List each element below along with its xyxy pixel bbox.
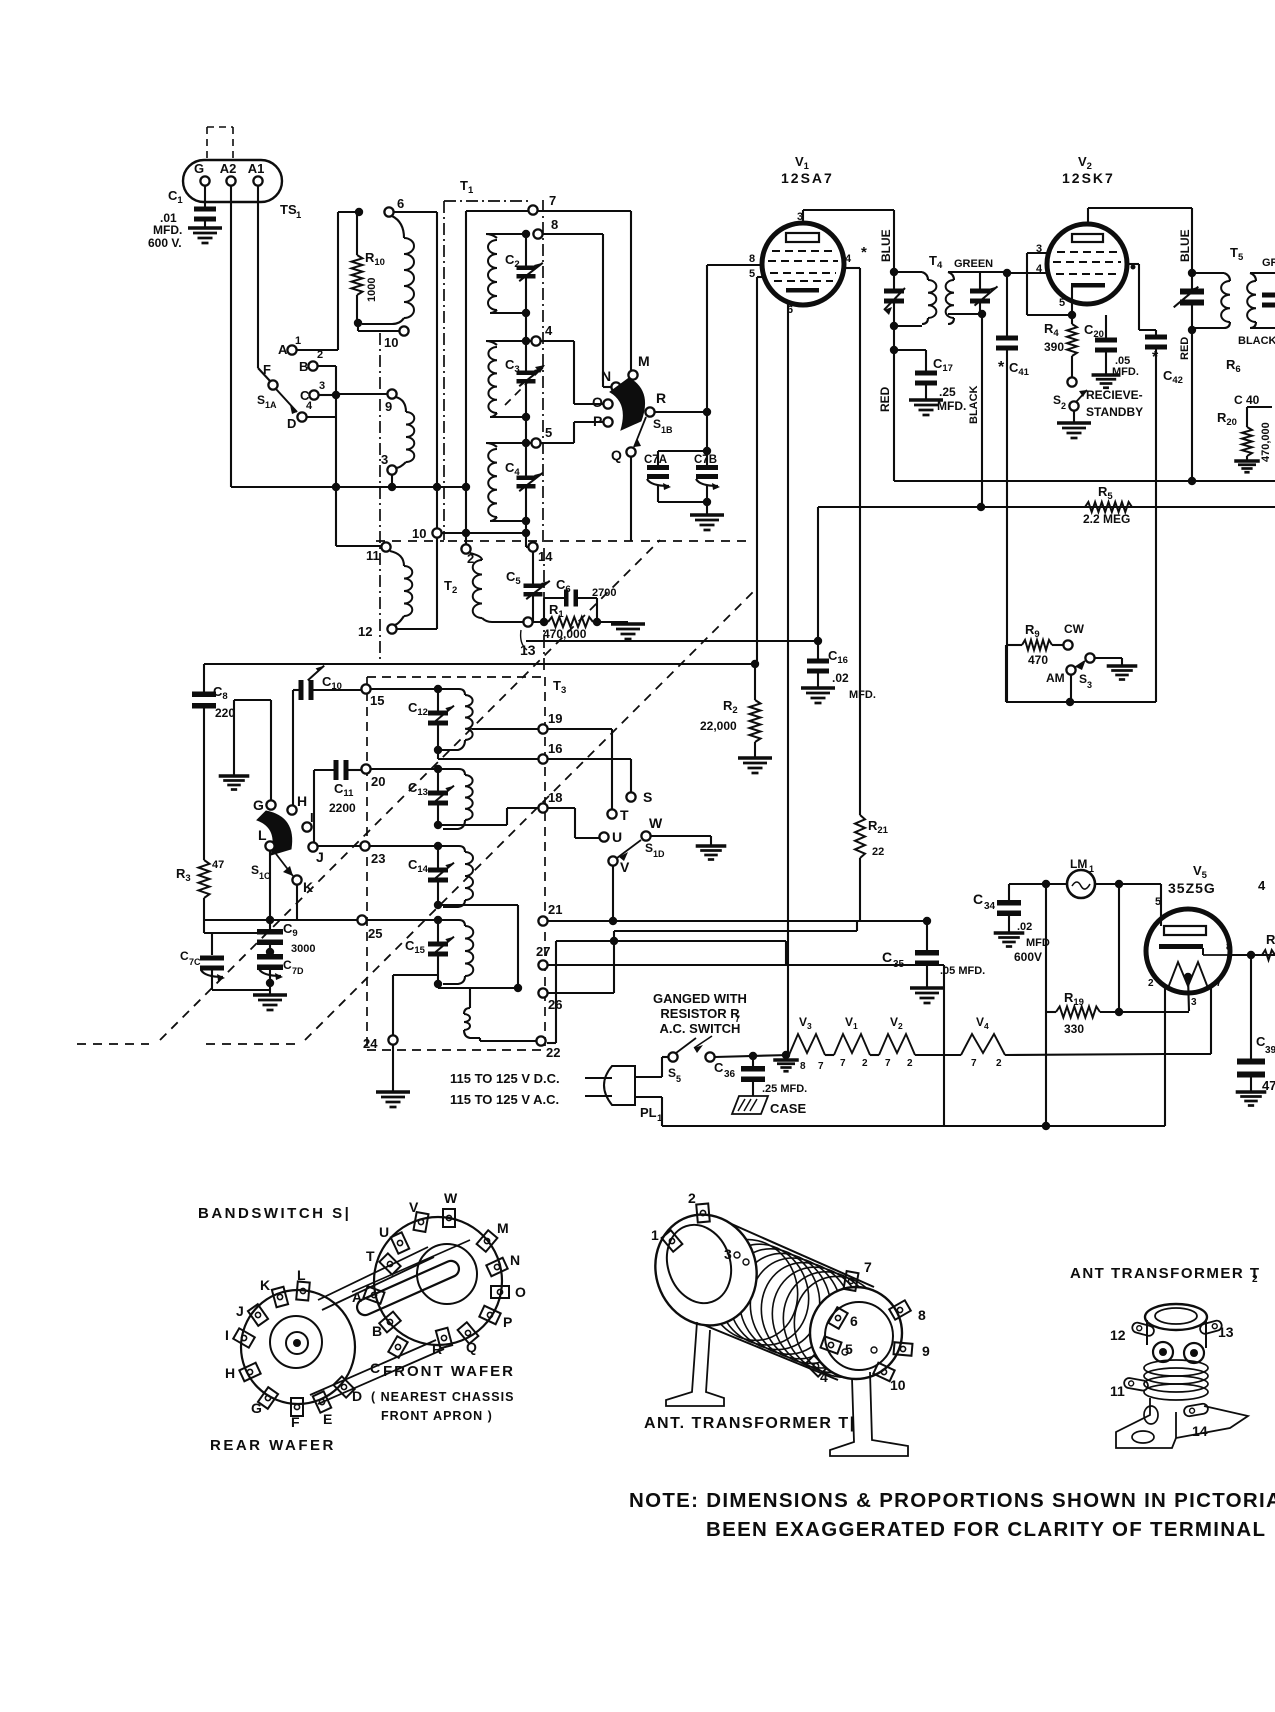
ground after R1	[611, 622, 645, 625]
svg-text:F: F	[291, 1414, 300, 1430]
bandswitch rear wafer disc	[241, 1290, 355, 1404]
capacitor C39	[1250, 955, 1252, 1060]
antenna lead dashed box	[206, 127, 208, 160]
svg-text:RED: RED	[878, 386, 892, 412]
svg-text:ANT TRANSFORMER T: ANT TRANSFORMER T	[1070, 1265, 1261, 1282]
svg-text:BLUE: BLUE	[879, 229, 893, 262]
svg-text:*: *	[1152, 349, 1159, 366]
wire pin7 to M riser	[538, 210, 631, 212]
ground S1D	[696, 844, 727, 847]
wire 6 to riser 437	[394, 211, 437, 213]
switch S1D contact S	[626, 792, 635, 801]
wire 944 riser	[943, 965, 945, 1126]
terminal 19	[538, 724, 547, 733]
svg-text:600 V.: 600 V.	[148, 236, 182, 250]
svg-text:RESISTOR R: RESISTOR R	[660, 1006, 740, 1021]
svg-text:S: S	[653, 417, 661, 431]
terminal 6 of T1 primary	[384, 207, 393, 216]
rail coilA top	[486, 233, 528, 235]
terminal 10 of T1 primary	[399, 326, 408, 335]
switch S1A contact A	[287, 345, 296, 354]
switch S3 AM CW	[1066, 665, 1075, 674]
svg-text:8: 8	[800, 1061, 806, 1072]
rail C7C bottom	[212, 989, 270, 991]
T3 coil 4	[438, 920, 465, 926]
T2 pictorial terminal 12	[1131, 1322, 1155, 1337]
svg-text:115 TO 125 V D.C.: 115 TO 125 V D.C.	[450, 1071, 560, 1086]
rail coilB top	[486, 340, 531, 342]
junction R1 left	[540, 618, 548, 626]
switch S1B contact R	[645, 407, 654, 416]
svg-text:470,000: 470,000	[1260, 422, 1272, 462]
junction C7 top	[703, 447, 711, 455]
svg-text:RECIEVE-: RECIEVE-	[1086, 388, 1143, 402]
svg-text:8: 8	[1226, 942, 1232, 953]
svg-text:FRONT WAFER: FRONT WAFER	[383, 1363, 515, 1380]
svg-text:.02: .02	[1017, 921, 1032, 933]
svg-text:1: 1	[651, 1227, 659, 1243]
shield box T3	[366, 677, 368, 1050]
svg-text:2.2 MEG: 2.2 MEG	[1083, 512, 1130, 526]
switch S1C contact H	[287, 805, 296, 814]
wire A1 to F	[257, 186, 259, 368]
T1 left bus wire	[465, 211, 467, 545]
wire 26 riser upper	[610, 937, 618, 945]
T4 secondary coil	[948, 272, 954, 280]
wire T4 sec to V2 grid	[1007, 272, 1048, 274]
svg-text:8: 8	[749, 253, 755, 265]
svg-text:.05 MFD.: .05 MFD.	[940, 965, 985, 977]
wire to ground R1	[597, 621, 628, 623]
switch S1B contact O	[603, 399, 612, 408]
wire V2 pin3 loop	[1027, 252, 1048, 254]
svg-text:RED: RED	[1179, 337, 1191, 360]
svg-text:4: 4	[545, 323, 553, 338]
ant transformer T1 left ring	[640, 1201, 771, 1339]
svg-text:S: S	[645, 841, 653, 855]
T4 secondary rail top	[948, 271, 1007, 273]
svg-text:4: 4	[1036, 263, 1043, 275]
svg-text:10: 10	[384, 335, 398, 350]
svg-text:G: G	[253, 797, 264, 813]
svg-text:3: 3	[724, 1246, 732, 1262]
case ground	[732, 1096, 768, 1114]
svg-text:M: M	[638, 353, 650, 369]
switch S1B rotor wedge	[610, 378, 645, 430]
svg-text:390: 390	[1044, 340, 1064, 354]
wire V1 pin6 down	[787, 303, 789, 1055]
wire A to riser	[297, 349, 338, 351]
junction LM1 left	[1042, 880, 1050, 888]
svg-text:8: 8	[551, 217, 558, 232]
svg-text:F: F	[263, 362, 271, 377]
T2 pictorial terminal 14	[1183, 1403, 1208, 1417]
svg-text:1B: 1B	[661, 425, 673, 435]
svg-text:24: 24	[363, 1036, 378, 1051]
wire 18 rail	[438, 824, 507, 826]
coil1 bottom	[441, 740, 465, 750]
svg-text:12SK7: 12SK7	[1062, 170, 1115, 186]
wire D-riser to 11	[336, 545, 381, 547]
svg-text:A.C. SWITCH: A.C. SWITCH	[660, 1021, 741, 1036]
svg-text:U: U	[612, 829, 622, 845]
svg-text:1: 1	[1089, 864, 1094, 874]
switch S1D contact T	[607, 809, 616, 818]
wire AVC riser to C16	[817, 507, 819, 641]
svg-text:M: M	[497, 1220, 509, 1236]
svg-text:5: 5	[1059, 297, 1065, 309]
wire K down	[296, 885, 298, 920]
junction B/C/D riser	[332, 391, 340, 399]
capacitor C1	[204, 186, 206, 208]
wire to V5 pin5	[1160, 884, 1162, 910]
svg-text:23: 23	[371, 851, 385, 866]
svg-text:11: 11	[1110, 1383, 1125, 1399]
heater wire to V5	[1005, 1054, 1165, 1055]
terminal A2	[226, 176, 235, 185]
svg-text:MFD.: MFD.	[1112, 366, 1139, 378]
svg-text:47: 47	[212, 859, 224, 871]
tube V5 heater	[1168, 962, 1208, 988]
tube V1 envelope	[762, 223, 844, 305]
ground C9 column	[253, 993, 287, 996]
svg-text:S: S	[1079, 672, 1087, 686]
wire Q stub	[630, 457, 632, 541]
wire 27 row	[548, 964, 944, 966]
svg-text:BLUE: BLUE	[1178, 229, 1192, 262]
wire coil3 bottom link	[438, 904, 518, 906]
junction R19 right	[1115, 1008, 1123, 1016]
svg-text:A: A	[352, 1289, 362, 1305]
bus 21 row	[548, 920, 927, 922]
junction C35	[923, 917, 931, 925]
ground below C17	[909, 398, 943, 401]
capacitor C11	[334, 760, 339, 780]
capacitor C36	[752, 1056, 754, 1068]
tube V1 grids	[772, 250, 834, 252]
T3 coil 3	[438, 846, 465, 852]
wire 3 to bus	[391, 475, 393, 487]
T3 coil 5	[464, 1008, 470, 1014]
svg-text:8: 8	[918, 1307, 926, 1323]
svg-text:5: 5	[676, 1074, 681, 1084]
wire 24 to ground	[392, 1045, 394, 1092]
svg-text:2200: 2200	[329, 801, 356, 815]
terminal 4	[531, 336, 540, 345]
wire pin4 to O	[541, 340, 574, 342]
svg-text:I: I	[225, 1327, 229, 1343]
wire T5 RED down	[1191, 330, 1193, 481]
T4 primary rail top	[894, 271, 922, 273]
svg-text:C 40: C 40	[1234, 393, 1260, 407]
trimmer C15	[437, 920, 439, 943]
tube V2 envelope	[1047, 224, 1127, 304]
svg-text:S: S	[257, 393, 265, 407]
junction T5 top	[1188, 269, 1196, 277]
svg-text:3000: 3000	[291, 943, 315, 955]
linkage horizontal 1	[77, 1043, 149, 1045]
junction grid bus	[751, 660, 759, 668]
svg-text:330: 330	[1064, 1022, 1084, 1036]
wire 16 to S	[548, 758, 631, 760]
capacitor C42	[1145, 335, 1167, 340]
AVC box bottom rail	[1005, 645, 1007, 702]
terminal 26	[538, 988, 547, 997]
ground below C39	[1236, 1090, 1267, 1093]
terminal 12 of T2	[387, 624, 396, 633]
ground below S2	[1073, 411, 1075, 423]
linkage dash T1 bottom rail	[376, 540, 444, 542]
shield dash-dot mid vertical	[543, 548, 545, 674]
link C3 to C4 rail	[525, 417, 527, 443]
terminal 7	[528, 205, 537, 214]
svg-text:C: C	[882, 949, 892, 965]
wire AVC box left	[1006, 701, 1007, 703]
svg-text:11: 11	[366, 548, 380, 563]
svg-text:L: L	[258, 827, 267, 843]
svg-text:MFD.: MFD.	[849, 689, 876, 701]
svg-text:22: 22	[546, 1045, 560, 1060]
svg-text:7C: 7C	[189, 957, 201, 967]
link C2 to C3 rail	[525, 313, 527, 341]
tube V1 plate	[786, 233, 819, 242]
svg-text:3: 3	[1191, 997, 1197, 1008]
svg-text:T: T	[620, 807, 629, 823]
riser 437 pin10T2	[436, 212, 438, 487]
ground below C34	[994, 931, 1025, 934]
padder C7B	[706, 451, 708, 468]
svg-text:C: C	[180, 949, 189, 963]
sec4 bottom rail	[438, 987, 518, 989]
svg-text:K: K	[260, 1277, 270, 1293]
svg-text:5: 5	[545, 425, 552, 440]
resistor R4	[1071, 315, 1073, 324]
ground below R2	[738, 756, 772, 759]
bus AVC 507	[818, 506, 1275, 508]
svg-text:STANDBY: STANDBY	[1086, 405, 1143, 419]
capacitor C10	[293, 689, 299, 691]
T4 secondary rail bottom	[948, 313, 982, 315]
svg-text:5: 5	[749, 268, 755, 280]
T2 output coil	[470, 553, 482, 560]
svg-text:C: C	[370, 1360, 380, 1376]
wire 16 rail	[438, 758, 538, 760]
wire S3 throw to ground	[1095, 657, 1122, 659]
svg-text:CASE: CASE	[770, 1101, 806, 1116]
svg-text:T: T	[366, 1248, 375, 1264]
svg-text:O: O	[515, 1284, 526, 1300]
svg-text:NOTE: DIMENSIONS & PROPORTIONS: NOTE: DIMENSIONS & PROPORTIONS SHOWN IN …	[629, 1489, 1275, 1512]
svg-text:E: E	[323, 1411, 332, 1427]
wire T4 down	[893, 326, 895, 481]
link rail to 14	[525, 533, 527, 547]
ant transformer T2 base	[1116, 1398, 1176, 1448]
svg-text:39: 39	[1265, 1045, 1275, 1056]
junction V5 pin8	[1230, 954, 1275, 956]
terminal 11 of T2	[381, 542, 390, 551]
svg-text:3: 3	[381, 452, 388, 467]
junction heater ground	[782, 1051, 790, 1059]
svg-text:7: 7	[818, 1061, 824, 1072]
svg-text:GANGED WITH: GANGED WITH	[653, 991, 747, 1006]
svg-text:BLACK: BLACK	[968, 385, 980, 424]
T5 primary trimmer	[1191, 273, 1193, 290]
T5 primary coil	[1224, 273, 1230, 281]
T1 coil C	[486, 443, 497, 447]
svg-text:1D: 1D	[653, 849, 665, 859]
svg-text:7: 7	[1216, 978, 1222, 989]
wire R3 to C9 rail	[204, 932, 258, 934]
terminal 20	[361, 764, 370, 773]
coil3 bottom	[443, 900, 465, 907]
T5 secondary trimmer partial	[1262, 293, 1275, 298]
wire V1 grid down	[756, 277, 758, 664]
svg-text:1: 1	[295, 335, 301, 347]
svg-text:MFD.: MFD.	[937, 399, 966, 413]
svg-text:CW: CW	[1064, 622, 1085, 636]
svg-text:LM: LM	[1070, 857, 1087, 871]
svg-text:16: 16	[548, 741, 562, 756]
terminal 9 of T2	[387, 389, 396, 398]
svg-text:C7A: C7A	[644, 454, 667, 466]
svg-text:115 TO 125 V A.C.: 115 TO 125 V A.C.	[450, 1092, 559, 1107]
wire S5 to heater bus	[715, 1055, 789, 1057]
terminal 21	[538, 916, 547, 925]
T5 primary rail top	[1192, 272, 1224, 274]
terminal 8	[533, 229, 542, 238]
switch S1A contact B	[308, 361, 317, 370]
svg-text:220: 220	[215, 706, 235, 720]
junction T5 bottom	[1188, 326, 1196, 334]
T2 pictorial terminal 13	[1199, 1320, 1223, 1335]
svg-text:B: B	[372, 1323, 382, 1339]
wire D	[307, 416, 336, 418]
svg-text:AM: AM	[1046, 671, 1065, 685]
ground below C35	[910, 986, 944, 989]
ground G hook	[219, 774, 250, 777]
capacitor C41	[1006, 273, 1008, 337]
switch S1B blade R-Q	[634, 417, 646, 447]
svg-text:S: S	[251, 863, 259, 877]
bottom return rail	[662, 1125, 1165, 1127]
svg-text:36: 36	[724, 1069, 736, 1080]
switch S1B contact P	[603, 417, 612, 426]
svg-text:22: 22	[872, 846, 884, 858]
wire V1 pin4 down	[844, 267, 860, 269]
wire 15 to coil1	[371, 688, 438, 690]
wire 22 link	[479, 1038, 481, 1041]
switch S1B contact Q	[626, 447, 635, 456]
wire 18 to U	[548, 807, 575, 809]
switch S2 recieve-standby	[1067, 377, 1076, 386]
linkage arrow at S1B	[505, 369, 541, 405]
switch S1C rotor wedge	[257, 811, 292, 855]
capacitor C6	[543, 598, 545, 622]
junction R19 riser	[1115, 880, 1123, 888]
svg-text:C: C	[973, 891, 983, 907]
switch S1C contact K	[292, 875, 301, 884]
wire C11 riser to J	[313, 770, 315, 842]
svg-text:H: H	[225, 1365, 235, 1381]
wire L down to C9	[269, 851, 271, 920]
svg-text:20: 20	[371, 774, 385, 789]
svg-text:A: A	[278, 342, 288, 357]
svg-text:C: C	[283, 958, 292, 972]
svg-text:2: 2	[996, 1058, 1002, 1069]
svg-text:27: 27	[536, 944, 550, 959]
wire V1 plate to T4	[803, 209, 894, 211]
switch S1A contact D	[297, 412, 306, 421]
svg-text:600V: 600V	[1014, 950, 1042, 964]
terminal 18	[538, 803, 547, 812]
wire G hook	[270, 700, 272, 800]
switch S1C contact I	[302, 822, 311, 831]
svg-text:.25 MFD.: .25 MFD.	[762, 1083, 807, 1095]
svg-text:GR: GR	[1262, 257, 1275, 269]
heater string V3	[789, 1034, 825, 1055]
terminal 2	[461, 544, 470, 553]
wire 23 to coil3	[370, 845, 438, 847]
plug leads	[635, 1076, 662, 1078]
terminal 25	[357, 915, 366, 924]
plug PL1	[604, 1066, 635, 1105]
svg-text:*: *	[998, 359, 1005, 376]
pilot lamp LM1	[1067, 870, 1095, 898]
T2 lower coil	[390, 551, 404, 566]
svg-text:*: *	[861, 244, 867, 261]
svg-text:7: 7	[971, 1058, 977, 1069]
terminal 5	[531, 438, 540, 447]
rail coilC top	[486, 442, 531, 444]
resistor R10	[356, 212, 358, 255]
shield dash-dot T2	[379, 333, 381, 660]
T2 pictorial terminal 11	[1123, 1377, 1148, 1391]
switch S1C contact L	[265, 841, 274, 850]
wire J to 23	[318, 845, 360, 847]
svg-text:4: 4	[306, 400, 313, 412]
junction R1 right	[593, 618, 601, 626]
bus C8 row	[204, 663, 755, 665]
terminal 3 of T2	[387, 465, 396, 474]
svg-text:21: 21	[548, 902, 562, 917]
switch S1C blade L-K	[273, 850, 293, 876]
svg-text:S: S	[1053, 393, 1061, 407]
svg-text:4: 4	[820, 1369, 828, 1385]
switch S1D contact U	[599, 832, 608, 841]
wire W to ground	[651, 835, 711, 837]
svg-text:1000: 1000	[366, 278, 378, 302]
coil2 bottom	[443, 820, 465, 829]
terminal 24	[388, 1035, 397, 1044]
svg-text:BANDSWITCH S|: BANDSWITCH S|	[198, 1205, 351, 1222]
svg-text:5: 5	[1155, 896, 1161, 908]
svg-text:( NEAREST CHASSIS: ( NEAREST CHASSIS	[371, 1390, 514, 1404]
svg-text:35Z5G: 35Z5G	[1168, 880, 1216, 896]
wire V down to 21 bus	[612, 866, 614, 921]
svg-text:15: 15	[370, 693, 384, 708]
wire 26 row	[548, 992, 614, 994]
bottom rail T1	[525, 521, 527, 533]
junction T4 primary top	[890, 268, 898, 276]
terminal 27	[538, 960, 547, 969]
junction C9 C7D	[266, 948, 274, 956]
ant transformer T1 body ribs	[727, 1222, 874, 1287]
ground below C20	[1092, 373, 1121, 376]
bus screen 481	[894, 480, 1275, 482]
tube V5 envelope	[1146, 909, 1230, 993]
ground below 24	[376, 1090, 410, 1093]
switch S1D contact W	[641, 831, 650, 840]
